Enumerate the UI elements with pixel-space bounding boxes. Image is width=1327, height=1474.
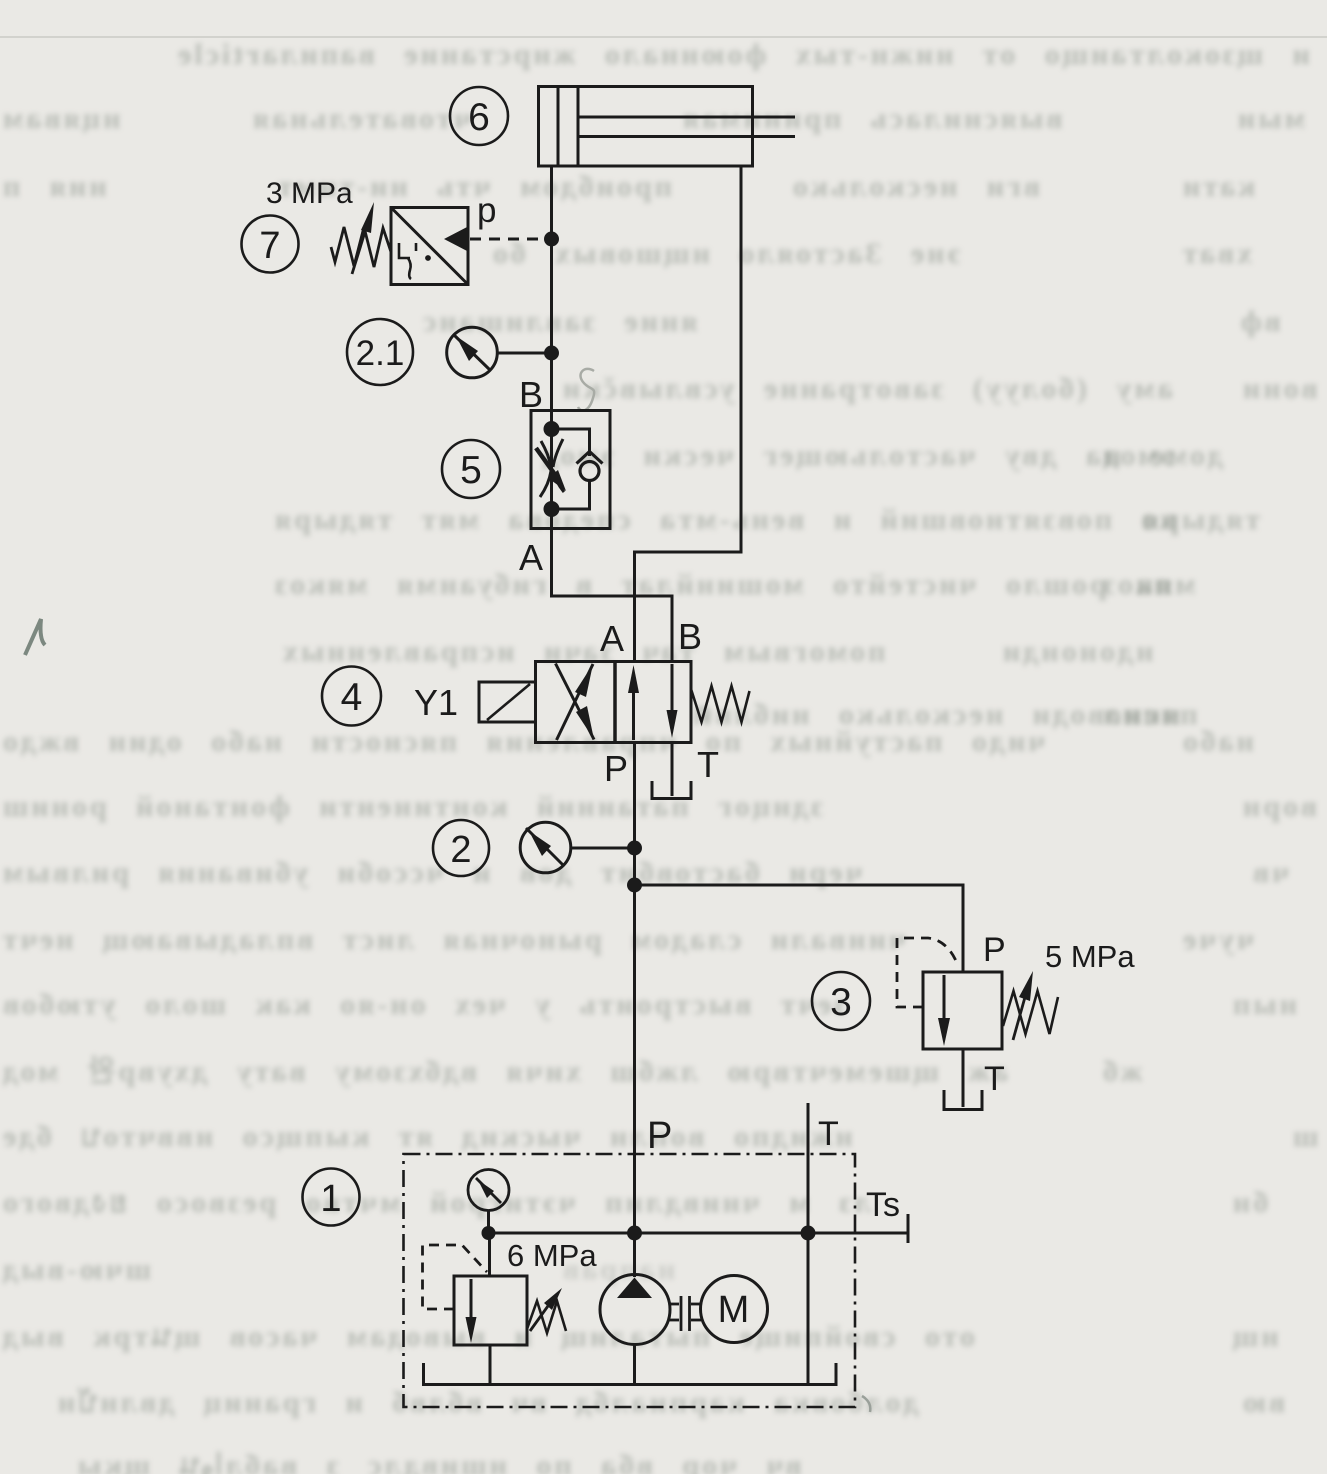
svg-text:Y1: Y1 [414,682,458,723]
svg-text:A: A [600,618,624,659]
node: junction dot gauge 2.1 tap [544,346,559,361]
power unit boundary (item 1, dash-dot) [404,1154,856,1407]
item circle 7 [242,216,299,273]
pressure gauge 2 [520,822,571,873]
svg-text:P: P [983,931,1006,969]
check valve seat [577,452,603,464]
scan artifact: faint top line [0,36,1327,38]
pilot dashed line p [470,238,546,241]
svg-text:P: P [647,1115,672,1157]
tank symbol at valve4 T [652,781,691,799]
valve V4 return spring [691,686,750,722]
valve V4 right cell arrow up (P to A) [628,665,639,740]
node: junction dot gauge stem [482,1226,496,1240]
wire: T line power unit [807,1103,810,1384]
wire: T line from valve4 to tank [671,743,674,797]
svg-text:M: M [718,1289,750,1331]
wire: cylinder right port down [635,166,742,663]
check valve branch wire lower [552,479,590,509]
shaft coupling [669,1296,701,1331]
wire: RV1 top connection [488,1233,491,1276]
solenoid Y1 [479,682,536,722]
wire: gauge 2 to P line [571,847,631,850]
Ts end tick [907,1214,910,1243]
node: junction dot T line [801,1226,816,1241]
svg-text:3 MPa: 3 MPa [266,177,353,210]
svg-text:7: 7 [259,225,280,267]
check valve ball [580,462,599,481]
node: junction dot gauge 2 tap [627,841,642,856]
node: junction dot pump line [627,1226,642,1241]
svg-text:p: p [477,191,496,230]
svg-text:T: T [697,744,719,785]
wire: gauge 2.1 to main line [498,352,549,355]
item circle 3 [812,972,870,1030]
bleed-through text rows (back of page) [175,40,1310,70]
pressure gauge (power unit) [468,1170,509,1234]
svg-text:B: B [519,374,543,415]
relief valve RV3 internal arrow [938,975,950,1046]
scan artifact: small paren mark [862,1396,870,1412]
check valve branch wire [552,429,590,456]
spring of pressure switch [331,227,391,267]
wire: cylinder left port down to flow valve B [550,166,553,411]
motor M [701,1276,768,1343]
svg-text:3: 3 [830,981,852,1024]
wire: RV3 to tank [962,1049,965,1107]
flow control valve FC5 box [531,411,610,529]
pressure switch electrical contact symbol [399,243,430,279]
wire: flow valve A down to valve4 port B [552,528,673,663]
cylinder piston [557,87,560,167]
item circle 6 [450,87,508,145]
wire: branch to relief valve 3 [635,885,964,972]
svg-text:A: A [519,537,543,578]
svg-text:B: B [678,616,702,657]
scan artifact: pen tick left margin [25,619,45,655]
svg-text:5 MPa: 5 MPa [1045,939,1135,974]
relief valve RV3 pilot dashed line [897,938,957,1007]
throttle adjustment arrow [536,448,566,491]
pressure switch pilot arrowhead [444,226,469,252]
svg-text:Ts: Ts [866,1186,900,1224]
pressure gauge 2.1 [447,327,498,378]
node: dot top inside flow valve [544,421,560,437]
node: junction dot on cylinder line at p tap [544,232,559,247]
relief valve RV3 adjustment arrow [1013,971,1033,1040]
valve V4 divider [613,662,617,743]
relief valve RV1 spring [527,1301,566,1333]
scan artifact: pen squiggle [578,369,594,411]
valve V4 right cell arrow down (B to T) [667,664,678,738]
relief valve RV1 internal arrow [466,1279,477,1343]
svg-text:1: 1 [320,1178,341,1220]
tank symbol at RV3 [944,1090,982,1110]
relief valve RV3 body [923,972,1002,1049]
adjustment arrow of pressure switch spring [352,202,374,274]
throttle arcs [540,439,564,497]
pressure switch U7 body [391,208,468,285]
item circle 5 [442,440,500,498]
svg-text:2: 2 [450,829,471,871]
bottom tank manifold [424,1363,837,1385]
node: dot bottom inside flow valve [544,501,560,517]
directional valve V4 body [536,662,692,743]
item circle 2 [433,820,489,876]
relief valve RV1 body (power unit) [454,1276,527,1345]
svg-text:T: T [818,1115,839,1153]
svg-text:6 MPa: 6 MPa [507,1238,597,1273]
cylinder C1 body (item 6) [539,87,753,167]
wire: P line from valve4 down to pump [633,743,636,1278]
cylinder rod [578,116,795,119]
pump [600,1275,670,1385]
svg-text:6: 6 [468,96,490,139]
svg-text:5: 5 [460,449,482,492]
svg-text:2.1: 2.1 [356,334,405,373]
svg-text:4: 4 [341,676,363,719]
relief valve RV3 spring [1003,991,1058,1034]
wire: RV1 to bottom manifold [489,1345,492,1384]
wire: main line through flow valve [550,411,553,529]
item circle 2.1 [347,319,413,385]
relief valve RV1 pilot dashed line [423,1245,488,1309]
relief valve RV1 adjustment arrow [530,1288,562,1331]
svg-text:T: T [984,1060,1005,1098]
wire: internal P manifold with Ts takeoff [489,1232,909,1235]
svg-text:P: P [604,748,628,789]
node: junction dot branch to relief 3 [627,878,642,893]
item circle 4 [322,667,381,726]
valve V4 left cell crossed arrows [556,664,595,741]
item circle 1 [303,1169,360,1226]
